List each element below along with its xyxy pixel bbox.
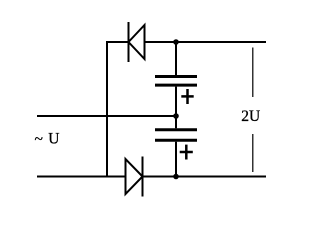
2U output voltage marker, lower line (252, 134, 254, 172)
wire: top rail, right segment (diode to output, through junction) (145, 41, 267, 43)
diode D1 (top, pointing left): triangle (129, 25, 145, 59)
polarity label + for C1 (181, 89, 193, 104)
wire: bottom rail, left segment (AC input to bottom diode anode) (37, 176, 126, 178)
capacitor C1 (top, polarized): bottom plate (155, 84, 197, 87)
2U output voltage marker, upper line (252, 48, 254, 98)
svg-text:U: U (48, 130, 59, 147)
polarity label + for C2 (180, 145, 193, 160)
wire: C1 top lead (175, 42, 177, 75)
wire: C1 bottom lead to middle junction to C2 top lead (175, 87, 177, 129)
svg-text:~: ~ (35, 131, 43, 148)
diode D2 (bottom, pointing right): cathode bar (142, 157, 144, 197)
wire: bottom rail, right segment (diode cathode to output) (143, 176, 267, 178)
junction dot: bottom rail / capacitor C2 bottom lead (173, 174, 179, 180)
junction dot: capacitor midpoint (173, 113, 179, 119)
wire: left vertical (connects top diode node to bottom diode node) (106, 41, 108, 178)
diode D2 (bottom, pointing right): triangle (126, 159, 143, 194)
wire: middle horizontal (AC input to capacitor midpoint) (37, 115, 176, 117)
diode D1 (top, pointing left): cathode bar (128, 22, 130, 62)
wire: top rail, left segment (diode anode node to cathode bar) (106, 41, 129, 43)
wire: C2 bottom lead (175, 142, 177, 177)
junction dot: top rail / capacitor C1 top lead (173, 39, 179, 45)
capacitor C2 (bottom, polarized): top plate (155, 128, 197, 131)
svg-text:2U: 2U (241, 108, 260, 125)
capacitor C1 (top, polarized): top plate (155, 75, 197, 78)
capacitor C2 (bottom, polarized): bottom plate (155, 139, 197, 142)
